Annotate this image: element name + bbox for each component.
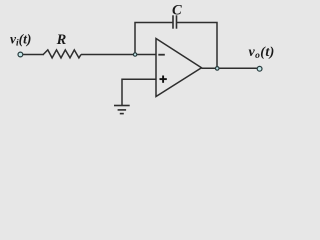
svg-text:vo(t): vo(t) [249,45,275,61]
wire non-inverting input to ground [122,79,156,105]
wire capacitor to output node (feedback right) [177,23,218,69]
input terminal circle [18,52,23,57]
op-amp plus sign (non-inverting input marker) [160,76,167,83]
wire node A up to capacitor (feedback left) [135,23,173,55]
node A junction circle [133,53,136,56]
capacitor C1 right plate [176,15,178,28]
output node junction circle [215,67,219,71]
op-amp U1 triangle [156,39,202,97]
svg-text:R: R [56,32,67,48]
resistor R1 zigzag [43,50,81,58]
capacitor C1 left plate [172,15,174,28]
wire resistor to node A [81,54,156,56]
output terminal circle [257,66,262,71]
ground symbol [114,106,130,114]
wire input to resistor [23,54,44,56]
svg-text:vi(t): vi(t) [10,32,31,49]
wire op-amp output to terminal [202,67,259,69]
svg-text:C: C [172,3,182,19]
op-amp minus sign (inverting input marker) [158,54,165,56]
